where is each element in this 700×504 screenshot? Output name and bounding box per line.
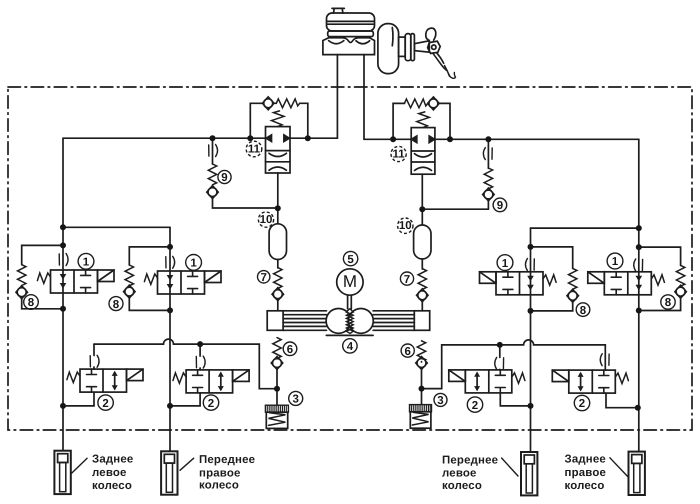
solenoid valve 2 group2 [173, 370, 249, 393]
svg-text:правое: правое [199, 467, 241, 479]
label 11 right [391, 146, 406, 161]
spring 8 g1 [18, 265, 26, 286]
wire: valve2 g1 ports [63, 344, 94, 406]
pedal top knob [426, 28, 436, 40]
junction left run / bypass 11L right [305, 135, 311, 141]
pump right line stack [373, 311, 414, 331]
label 8 g3 [576, 303, 590, 317]
master cylinder reservoir [327, 13, 375, 31]
wire: accumulator right to pump [421, 259, 423, 311]
junction valve2 g4 outlet [635, 405, 641, 411]
junction left run / bypass 11L left [247, 135, 253, 141]
wire: third main line (node C) [530, 228, 532, 452]
check valve of right bypass [428, 97, 439, 110]
svg-text:Переднее: Переднее [199, 454, 255, 466]
svg-text:левое: левое [92, 467, 127, 479]
valve 11 right bypass loop wire [393, 103, 450, 139]
valve 11 left bypass loop wire [250, 103, 307, 138]
junction suction node left [274, 386, 280, 392]
check valve 8 g1 [16, 286, 27, 299]
check valve 7 right [417, 289, 428, 302]
spring of left bypass [276, 99, 299, 108]
restrictor on branch 9 right [483, 148, 492, 160]
brake pedal pivot plate [428, 41, 441, 53]
svg-text:8: 8 [28, 297, 35, 309]
svg-text:2: 2 [208, 398, 214, 410]
pedal rod [414, 41, 429, 52]
spring 7 right [418, 269, 426, 290]
wire: valve 11 right outlet down to accumulator [421, 174, 423, 225]
wheel cylinder rear right [629, 452, 645, 495]
svg-text:2: 2 [472, 400, 478, 412]
svg-text:колесо: колесо [565, 480, 605, 492]
wire: suction node left [276, 358, 278, 405]
spring of right bypass [404, 99, 427, 108]
svg-text:колесо: колесо [199, 479, 239, 491]
label 9 right [493, 198, 507, 212]
svg-text:11: 11 [393, 149, 406, 161]
restrictor above valve2 g1 [90, 355, 99, 367]
solenoid valve 1 group1 [37, 270, 114, 293]
bypass loop 8 g3 wire [531, 247, 573, 311]
check valve of left bypass [263, 97, 274, 110]
wire: valve2 g3 ports [500, 345, 531, 406]
junction valve1 g4 loop bottom [636, 308, 642, 314]
pushrod disc [405, 34, 414, 61]
junction valve2 g3 outlet [528, 403, 534, 409]
label 3 left [289, 391, 303, 405]
junction valve1 g2 loop top [167, 244, 173, 250]
label 10 left [258, 212, 273, 227]
motor shaft [348, 295, 352, 309]
check valve 8 g2 [124, 285, 135, 298]
label 6 right [401, 344, 414, 358]
restrictor above valve1 g3 [525, 259, 534, 271]
svg-text:Переднее: Переднее [442, 455, 498, 467]
damper branch 9 right wire [422, 139, 488, 209]
check valve 6 right [416, 357, 427, 370]
solenoid valve 2 group1 [67, 369, 143, 392]
pump inlet block right [414, 311, 429, 331]
bypass loop 8 g4 wire [639, 247, 681, 310]
leader rear left [71, 458, 87, 474]
svg-text:Заднее: Заднее [92, 454, 133, 466]
solenoid valve 1 group3 [480, 272, 557, 295]
master cylinder flange [328, 31, 374, 37]
label 4 [343, 339, 357, 353]
solenoid valve 2 group3 [449, 370, 525, 393]
svg-text:колесо: колесо [92, 480, 132, 492]
bypass loop 8 g1 wire [22, 245, 63, 308]
wire: right supply run [364, 138, 639, 140]
solenoid valve 1 group4 [588, 272, 665, 295]
solenoid valve 2 group4 [552, 370, 628, 393]
svg-text:8: 8 [580, 305, 587, 317]
svg-text:Заднее: Заднее [565, 454, 606, 466]
svg-text:M: M [343, 272, 357, 291]
junction valve1 g1 loop bottom [60, 306, 66, 312]
leader front left [502, 458, 518, 476]
junction valve1 g3 loop bottom [528, 308, 534, 314]
leader rear right [610, 458, 629, 478]
svg-text:9: 9 [497, 200, 503, 212]
svg-text:1: 1 [502, 258, 509, 270]
relief valve 11 right body [411, 128, 435, 175]
low pressure accumulator 3 right [410, 405, 432, 429]
restrictor on branch 9 left [209, 145, 218, 157]
label 2 g2 [203, 395, 218, 410]
svg-text:6: 6 [287, 344, 293, 356]
label 11 left [246, 141, 262, 157]
master cylinder reservoir cap [332, 8, 344, 13]
svg-text:правое: правое [565, 467, 607, 479]
junction right run / bypass 11R left [390, 136, 396, 142]
label 1 g2 [186, 255, 202, 271]
restrictor above valve1 g2 [166, 256, 175, 268]
spring 7 left [274, 268, 282, 289]
svg-text:2: 2 [102, 398, 108, 410]
label 8 g4 [661, 295, 675, 309]
label 3 right [434, 393, 447, 407]
svg-text:3: 3 [437, 395, 443, 407]
svg-text:6: 6 [404, 346, 410, 358]
brake pedal arm [433, 53, 446, 70]
restrictor above valve2 g2 [196, 356, 205, 368]
accumulator 10 left [269, 224, 286, 260]
electric motor M [337, 269, 363, 295]
check valve 7 left [272, 288, 283, 301]
svg-text:1: 1 [190, 258, 197, 270]
wire: master cylinder left outlet down [336, 55, 338, 139]
booster pushrod block [399, 37, 406, 56]
pedal lower arm [445, 66, 450, 77]
damper branch 9 left wire [213, 138, 278, 208]
junction accumulator 10R inlet [419, 206, 425, 212]
wire: second main line (node B) [169, 227, 171, 451]
label 1 g3 [497, 255, 513, 271]
wire: master cylinder right outlet down [363, 55, 365, 140]
svg-text:8: 8 [113, 299, 120, 311]
check valve 8 g3 [567, 289, 578, 302]
label 1 g1 [78, 253, 94, 269]
wire: accumulator left to pump [277, 260, 279, 311]
junction suction node right [419, 386, 425, 392]
wheel label rear left [92, 454, 133, 493]
restrictor above valve1 g4 [634, 259, 643, 271]
svg-text:1: 1 [612, 256, 619, 268]
wire: left front main line (node A) [62, 138, 64, 451]
relief valve 11 left body [266, 127, 291, 173]
numbered labels [24, 141, 676, 412]
wire: left branch to second circuit [63, 226, 170, 228]
pump left line stack [283, 311, 326, 331]
spring 9 right [484, 168, 492, 189]
bypass loop 8 g2 wire [129, 247, 170, 311]
restrictor above valve2 g3 [495, 357, 504, 369]
accumulator 10 right [414, 225, 431, 259]
label 2 g3 [467, 397, 482, 412]
svg-text:7: 7 [260, 272, 266, 284]
label 7 left [258, 271, 270, 284]
junction node A branch [60, 224, 66, 230]
junction return L / valve2 g2 [197, 341, 203, 347]
restrictor above valve2 g4 [600, 354, 609, 366]
junction right run / bypass 11R right [447, 136, 453, 142]
junction valve2 g1 outlet [60, 403, 66, 409]
check valve 8 g4 [675, 285, 686, 298]
wheel label rear right [565, 454, 607, 492]
svg-text:левое: левое [442, 468, 477, 480]
label 8 g1 [24, 295, 39, 310]
wire: valve2 g2 ports [170, 344, 200, 406]
check valve 9 left [207, 186, 218, 199]
svg-text:9: 9 [221, 172, 227, 184]
label 7 right [400, 272, 413, 286]
junction accumulator 10L inlet [275, 205, 281, 211]
wheel cylinder front right [161, 451, 177, 494]
spring atop valve 11 left [272, 111, 285, 127]
wheel cylinder front left [521, 452, 537, 495]
pump inlet block left [267, 311, 283, 331]
junction valve1 g3 loop top [528, 244, 534, 250]
svg-text:3: 3 [292, 394, 298, 406]
spring atop valve 11 right [417, 112, 430, 128]
svg-text:8: 8 [665, 297, 672, 309]
check valve 6 left [271, 357, 282, 370]
junction valve2 g2 outlet [167, 403, 173, 409]
wire: right branch to third circuit [531, 227, 639, 229]
pedal foot hook [449, 72, 456, 78]
wire: valve 11 left outlet down to accumulator [277, 173, 279, 224]
junction return R / valve2 g3 [497, 342, 503, 348]
label 1 g4 [607, 253, 623, 269]
label 2 g1 [98, 395, 113, 410]
junction valve1 g2 loop bottom [167, 307, 173, 313]
check valve 9 right [483, 188, 494, 201]
svg-text:10: 10 [260, 214, 273, 226]
label 5 [343, 251, 357, 265]
svg-text:10: 10 [399, 220, 412, 232]
pump baseline [326, 334, 373, 336]
svg-text:колесо: колесо [442, 480, 482, 492]
low pressure accumulator 3 left [265, 405, 288, 428]
svg-text:2: 2 [579, 398, 585, 410]
pump center braid [346, 309, 353, 334]
spring 8 g2 [125, 265, 133, 286]
solenoid valve 1 group2 [144, 271, 221, 294]
label 2 g4 [574, 395, 589, 410]
wheel cylinder rear left [54, 451, 70, 494]
label 10 right [398, 218, 413, 233]
wire: valve2 g4 ports [606, 393, 638, 408]
wheel label front left [442, 455, 498, 493]
wheel label front right [199, 454, 255, 491]
vacuum booster [378, 24, 399, 74]
restrictor above valve1 g1 [59, 254, 68, 266]
svg-text:1: 1 [83, 257, 90, 269]
return line left [94, 339, 277, 389]
master cylinder body [323, 38, 375, 55]
label 9 left [218, 170, 231, 184]
spring 8 g3 [569, 268, 577, 289]
return spring 6 right [417, 341, 425, 362]
junction valve1 g4 loop top [636, 244, 642, 250]
leader front right [180, 458, 194, 470]
wire: right main line (node D) [638, 139, 640, 451]
junction valve1 g1 loop top [60, 242, 66, 248]
svg-text:11: 11 [248, 144, 261, 156]
spring 9 left [208, 164, 216, 185]
return spring 6 left [273, 338, 281, 359]
wire: left supply run [63, 137, 337, 139]
svg-text:4: 4 [347, 341, 354, 353]
wire: suction node right [421, 362, 423, 405]
label 8 g2 [109, 297, 123, 311]
return line right [422, 340, 606, 389]
svg-text:7: 7 [404, 274, 410, 286]
svg-text:5: 5 [347, 254, 354, 266]
spring 8 g4 [676, 265, 684, 286]
junction left run / branch 9L [210, 135, 216, 141]
ABS unit dash-dot border [8, 87, 692, 430]
pump circles [326, 309, 373, 334]
junction right run / branch 9R [485, 136, 491, 142]
label 6 left [283, 342, 297, 356]
junction node D branch [636, 225, 642, 231]
